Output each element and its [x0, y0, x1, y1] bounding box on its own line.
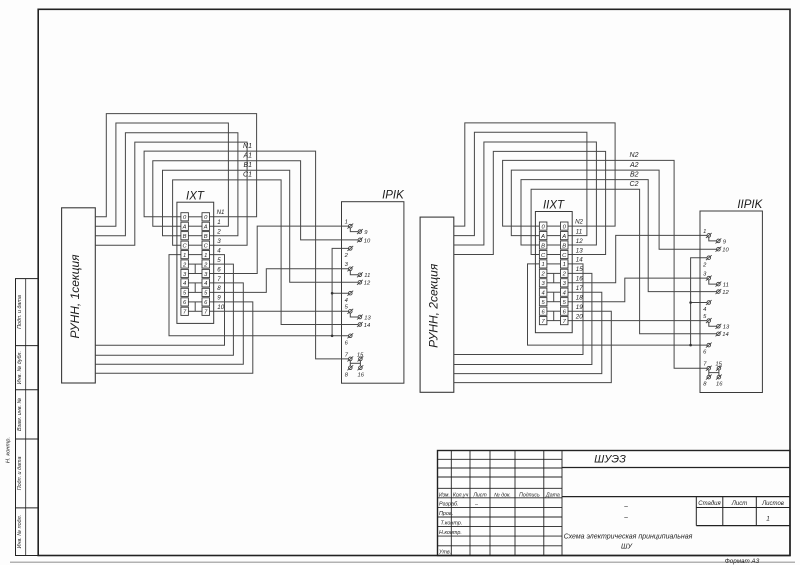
svg-text:15: 15 [357, 352, 364, 358]
svg-text:13: 13 [576, 247, 583, 254]
svg-text:N1: N1 [243, 143, 252, 150]
IIPIK pin 5 [703, 314, 712, 323]
svg-text:4: 4 [183, 281, 186, 287]
IXT row 2 link [188, 263, 202, 265]
wire branch to IIPIK pin 4 [691, 302, 708, 304]
svg-text:B: B [562, 243, 566, 249]
wire 20: IIXT terminal 7 to IIPIK pin 5 [568, 320, 707, 322]
IIPIK pin 6 [703, 343, 712, 356]
IIXT right cell 0 [561, 222, 569, 230]
IIXT jumper 2-3 [553, 273, 555, 282]
IXT left cell 2 [181, 260, 189, 269]
IXT row 1 link [188, 254, 202, 256]
IIXT row 2 link [547, 272, 561, 274]
IIPIK pin 1 [703, 229, 712, 238]
svg-text:1: 1 [183, 253, 186, 259]
svg-text:9: 9 [217, 295, 221, 302]
svg-text:Взам. инв. №: Взам. инв. № [17, 397, 23, 431]
svg-text:B: B [204, 234, 208, 240]
IXT row A link [188, 225, 202, 227]
IIXT right cell C [561, 250, 569, 258]
svg-text:14: 14 [364, 323, 370, 329]
svg-text:11: 11 [576, 228, 582, 235]
svg-text:Дата: Дата [545, 492, 560, 498]
svg-text:Пров.: Пров. [439, 511, 453, 517]
wire N2: РУНН 2секция top to IIXT terminal 0 [454, 123, 615, 226]
svg-text:12: 12 [364, 281, 371, 287]
IIXT left cell A [539, 232, 547, 240]
IIPIK pin 3 [703, 272, 712, 281]
svg-text:19: 19 [576, 304, 583, 311]
svg-text:B2: B2 [630, 171, 639, 178]
svg-text:1: 1 [703, 229, 706, 235]
wire B2: IIXT terminal B to IIPIK pin 12 [521, 180, 717, 292]
IIPIK pin 11 [716, 282, 729, 289]
sheet bottom shadow edge [10, 561, 795, 563]
svg-text:B1: B1 [243, 162, 252, 169]
wire C2: IIXT terminal C to IIPIK pin 14 [531, 189, 716, 334]
svg-text:ШУ: ШУ [621, 543, 633, 550]
IIXT row C link [547, 254, 561, 256]
svg-text:4: 4 [541, 291, 544, 297]
IIPIK pin 2 [702, 255, 712, 268]
IIPIK pin 14 [716, 331, 729, 338]
svg-text:IIXT: IIXT [543, 200, 565, 212]
IIXT left cell 6 [539, 307, 547, 315]
wire 9: РУНН 1секция bottom to IXT terminal 6 [95, 302, 253, 373]
svg-text:1: 1 [345, 220, 348, 226]
IIPIK pin 8 [703, 375, 711, 388]
IIXT right cell 6 [561, 307, 569, 315]
svg-text:N2: N2 [575, 219, 583, 226]
IXT right cell 6 [202, 298, 210, 306]
IXT right cell C [202, 241, 210, 249]
IXT row B link [188, 235, 202, 237]
IPIK link 7-8 [349, 361, 351, 366]
IPIK pin 15 [357, 352, 364, 361]
svg-text:18: 18 [576, 295, 583, 302]
IPIK contact elbow pin to 11 [350, 271, 358, 275]
svg-text:4: 4 [204, 281, 207, 287]
IXT left cell 0 [181, 213, 189, 221]
IIXT left cell 1 [539, 260, 547, 268]
IIXT row B link [547, 244, 561, 246]
svg-text:Формат А3: Формат А3 [725, 558, 760, 565]
IPIK pin 12 [357, 280, 371, 287]
IXT jumper 2-3 [194, 264, 196, 273]
IPIK pin 13 [357, 315, 372, 322]
svg-text:4: 4 [703, 307, 706, 313]
junction dot [689, 344, 692, 347]
IIPIK contact elbow pin to 9 [709, 237, 717, 241]
IIXT left cell B [539, 241, 547, 249]
IIPIK contact elbow pin to 13 [709, 322, 717, 326]
wire N1: IXT terminal 0 to IPIK pin 7 [144, 151, 349, 359]
wire 12: РУНН 2секция top to IIXT terminal B [454, 142, 597, 245]
svg-text:IPIK: IPIK [382, 190, 405, 202]
IIXT left cell 3 [539, 279, 547, 287]
IIXT row 6 link [547, 310, 561, 312]
IIXT right cell A [561, 232, 569, 240]
svg-text:15: 15 [576, 266, 583, 273]
svg-text:5: 5 [217, 257, 221, 264]
wire 13: РУНН 2секция top to IIXT terminal C [454, 151, 606, 254]
wire A1: IXT terminal A to IPIK pin 10 [153, 161, 358, 240]
IPIK pin 8 [345, 365, 353, 378]
svg-text:Инв. № дубл.: Инв. № дубл. [17, 351, 23, 384]
IIXT jumper 6-7 [553, 311, 555, 320]
wire 17: РУНН 2секция bottom to IIXT terminal 4 [454, 292, 602, 373]
svg-text:1: 1 [563, 262, 566, 268]
svg-text:Стадия: Стадия [698, 501, 721, 507]
IIPIK pin 16 [716, 375, 723, 388]
IPIK pin 10 [357, 237, 371, 244]
wire 8: IXT terminal 5 to IPIK pin 3 [209, 269, 348, 293]
IPIK pin 9 [357, 229, 368, 236]
svg-text:12: 12 [576, 238, 583, 245]
wire B1: IXT terminal B to IPIK pin 12 [163, 170, 359, 282]
wire 11: РУНН 2секция top to IIXT terminal A [454, 132, 587, 235]
svg-text:Н. контр.: Н. контр. [6, 437, 12, 463]
svg-text:4: 4 [345, 298, 348, 304]
wire branch to IPIK pin 4 [332, 292, 349, 294]
wire 6: IXT terminal 3 to IPIK pin 1 [209, 226, 348, 273]
svg-text:A: A [182, 225, 187, 231]
IPIK contact elbow pin to 13 [350, 313, 358, 317]
IPIK pin 7 [345, 352, 353, 361]
wire 14: РУНН 2секция bottom to IIXT terminal 1 [454, 264, 583, 355]
IXT right cell A [202, 222, 210, 230]
IIPIK pin 10 [716, 247, 730, 254]
IIPIK link 7-15 row [709, 372, 719, 374]
IIPIK pin 13 [716, 324, 731, 331]
svg-text:16: 16 [358, 372, 365, 378]
IXT left cell 4 [181, 279, 189, 287]
IXT right cell 5 [202, 288, 210, 296]
wire 18: IIXT terminal 5 to IIPIK pin 3 [568, 278, 707, 302]
IIXT left cell 0 [539, 222, 547, 230]
svg-text:7: 7 [217, 276, 221, 283]
terminal block IXT [177, 190, 214, 323]
svg-text:РУНН, 2секция: РУНН, 2секция [426, 263, 440, 348]
svg-text:14: 14 [576, 257, 583, 264]
svg-text:A1: A1 [242, 153, 252, 160]
svg-text:N1: N1 [217, 209, 225, 216]
IPIK pin 5 [345, 305, 354, 314]
IXT left cell 5 [181, 288, 189, 296]
IXT left cell 6 [181, 298, 189, 306]
IIXT left cell 7 [539, 317, 547, 325]
svg-text:–: – [623, 515, 628, 522]
header row labels [439, 492, 560, 498]
IPIK pin 14 [357, 322, 370, 329]
IIXT row 1 link [547, 263, 561, 265]
wire 10: IXT terminal 7 to IPIK pin 5 [209, 310, 348, 312]
IIXT right cell 3 [561, 279, 569, 287]
svg-text:Лист: Лист [731, 501, 747, 507]
svg-text:A: A [561, 234, 566, 240]
svg-text:16: 16 [716, 382, 723, 388]
wire: IXT terminal 1 to IPIK pin 6 [169, 255, 349, 336]
IIPIK contact elbow pin to 11 [709, 280, 717, 284]
IXT left cell 1 [181, 251, 189, 259]
svg-text:N2: N2 [630, 152, 639, 159]
svg-text:3: 3 [217, 238, 221, 245]
IXT left cell 7 [181, 307, 189, 315]
wire 7: РУНН 1секция bottom to IXT terminal 4 [95, 283, 243, 364]
IXT row 7 link [188, 310, 202, 312]
IIXT left cell 2 [539, 269, 547, 278]
junction dot [331, 292, 334, 295]
svg-text:12: 12 [722, 290, 729, 296]
svg-text:1: 1 [541, 262, 544, 268]
svg-text:6: 6 [217, 266, 221, 273]
IIXT row 5 link [547, 301, 561, 303]
IIPIK pin 4 [703, 300, 712, 313]
IPIK contact elbow pin to 9 [350, 228, 358, 232]
IIXT left cell 4 [539, 288, 547, 297]
svg-text:Лист: Лист [472, 492, 487, 498]
svg-text:10: 10 [217, 304, 224, 311]
svg-text:Схема электрическая принципиал: Схема электрическая принципиальная [564, 534, 693, 541]
terminal block IIXT [535, 200, 572, 333]
connector block IIPIK [700, 199, 764, 393]
IPIK pin 2 [344, 246, 354, 259]
wire 5: РУНН 1секция bottom to IXT terminal 2 [95, 264, 233, 355]
svg-text:10: 10 [722, 248, 729, 254]
svg-text:10: 10 [364, 238, 371, 244]
svg-text:1: 1 [766, 515, 770, 522]
title block [438, 451, 791, 556]
svg-text:14: 14 [722, 332, 728, 338]
svg-text:B: B [183, 234, 187, 240]
IXT right cell 0 [202, 213, 210, 221]
svg-text:20: 20 [575, 313, 583, 320]
IXT right cell 1 [202, 251, 210, 259]
cabinet block РУНН 1секция [62, 208, 96, 383]
IPIK link 15-16 [359, 361, 361, 366]
wire 1: РУНН 1секция top to IXT terminal A [95, 123, 228, 226]
svg-text:Кол.уч: Кол.уч [453, 492, 469, 498]
IIXT right cell B [561, 241, 569, 249]
IIPIK pin 9 [716, 238, 727, 245]
IXT right cell 4 [202, 279, 210, 287]
IIPIK link 15-16 [718, 370, 720, 375]
svg-text:ШУЭЗ: ШУЭЗ [594, 454, 626, 466]
IXT row C link [188, 244, 202, 246]
wire 15: РУНН 2секция bottom to IIXT terminal 2 [454, 273, 592, 364]
IPIK pin 16 [358, 365, 365, 378]
IIPIK link 7-8 [708, 370, 710, 375]
IPIK link 7-15 row [350, 362, 360, 364]
IXT row 4 link [188, 282, 202, 284]
IPIK pin 11 [357, 272, 370, 279]
svg-text:11: 11 [723, 283, 729, 289]
svg-text:13: 13 [364, 315, 371, 321]
svg-text:C1: C1 [243, 172, 252, 179]
IIPIK pin 7 [703, 362, 711, 371]
svg-text:1: 1 [217, 219, 220, 226]
wire N2: IIXT terminal 0 to IIPIK pin 7 [503, 160, 707, 368]
IXT left cell B [181, 232, 189, 240]
svg-text:8: 8 [217, 285, 221, 292]
wire 16: IIXT terminal 3 to IIPIK pin 1 [568, 235, 707, 282]
svg-text:Подп. и дата: Подп. и дата [17, 295, 23, 329]
svg-text:Изм.: Изм. [439, 492, 450, 498]
IIXT row 4 link [547, 291, 561, 293]
IIPIK pin 12 [716, 289, 730, 296]
wire: IIXT terminal 1 to IIPIK pin 6 [528, 264, 708, 345]
svg-text:A2: A2 [629, 162, 639, 169]
svg-text:2: 2 [216, 229, 221, 236]
IPIK pin 6 [345, 333, 354, 346]
IXT row 3 link [188, 273, 202, 275]
IXT right cell 3 [202, 269, 210, 277]
IIXT row 0 link [547, 225, 561, 227]
wire 4: РУНН 1секция bottom to IXT terminal 1 [95, 255, 224, 346]
IXT right cell 7 [202, 307, 210, 315]
wire 19: РУНН 2секция bottom to IIXT terminal 6 [454, 311, 612, 382]
svg-text:A: A [540, 234, 545, 240]
IXT jumper 6-7 [194, 302, 196, 311]
svg-text:11: 11 [364, 273, 370, 279]
wire 3: РУНН 1секция top to IXT terminal C [95, 142, 247, 245]
IXT right cell 2 [202, 260, 210, 269]
svg-text:B: B [541, 243, 545, 249]
svg-text:№ док.: № док. [494, 492, 511, 498]
svg-text:Разраб.: Разраб. [439, 501, 459, 507]
IPIK pin 4 [345, 291, 354, 304]
svg-text:–: – [623, 503, 628, 510]
svg-text:16: 16 [576, 276, 583, 283]
IPIK pin 3 [345, 262, 354, 271]
svg-text:Т.контр.: Т.контр. [441, 521, 463, 527]
svg-text:Подп. и дата: Подп. и дата [17, 457, 23, 491]
left stamp column [16, 279, 39, 556]
wire C1: IXT terminal C to IPIK pin 14 [173, 180, 358, 325]
IIXT jumper 4-5 [553, 292, 555, 302]
IXT left cell A [181, 222, 189, 230]
svg-text:РУНН, 1секция: РУНН, 1секция [68, 254, 82, 339]
IIXT left cell C [539, 250, 547, 258]
signature rows [438, 501, 479, 555]
IXT row 0 link [188, 216, 202, 218]
svg-text:C2: C2 [630, 181, 639, 188]
wire 2: РУНН 1секция top to IXT terminal B [95, 133, 238, 236]
junction dot [331, 335, 334, 338]
svg-text:17: 17 [576, 285, 583, 292]
IXT left cell 3 [181, 269, 189, 277]
wire N1: РУНН 1секция top to IXT terminal 0 [95, 114, 256, 217]
IIXT right cell 7 [561, 317, 569, 325]
IIXT row A link [547, 235, 561, 237]
wire branch to IPIK pin 2 [332, 248, 349, 335]
wire branch to IIPIK pin 2 [691, 258, 708, 345]
IXT left cell C [181, 241, 189, 249]
svg-text:Утв.: Утв. [438, 550, 451, 556]
stage/sheet header [698, 501, 784, 523]
IIXT right cell 5 [561, 298, 569, 306]
svg-text:IXT: IXT [186, 190, 205, 202]
IXT jumper 4-5 [194, 283, 196, 293]
cabinet block РУНН 2секция [420, 217, 454, 392]
svg-text:Н.контр.: Н.контр. [439, 530, 462, 536]
IIXT right cell 2 [561, 269, 569, 278]
svg-text:Подпись: Подпись [519, 492, 540, 498]
IXT row 5 link [188, 291, 202, 293]
svg-text:IIPIK: IIPIK [737, 199, 763, 211]
IIXT left cell 5 [539, 298, 547, 306]
svg-text:A: A [203, 225, 208, 231]
svg-text:13: 13 [723, 325, 730, 331]
IXT right cell B [202, 232, 210, 240]
IXT row 6 link [188, 301, 202, 303]
svg-text:15: 15 [715, 362, 722, 368]
svg-text:4: 4 [563, 291, 566, 297]
junction dot [689, 301, 692, 304]
IIXT right cell 4 [561, 288, 569, 297]
connector block IPIK [342, 190, 406, 384]
wire A2: IIXT terminal A to IIPIK pin 10 [511, 170, 716, 249]
IIXT right cell 1 [561, 260, 569, 268]
svg-text:Листов: Листов [761, 501, 784, 507]
svg-text:1: 1 [204, 253, 207, 259]
svg-text:Инв. № подл.: Инв. № подл. [17, 515, 23, 548]
IIXT row 7 link [547, 320, 561, 322]
IIPIK pin 15 [715, 362, 722, 371]
document name [564, 503, 693, 550]
IPIK pin 1 [345, 220, 354, 229]
IIXT row 3 link [547, 282, 561, 284]
svg-text:4: 4 [217, 247, 221, 254]
